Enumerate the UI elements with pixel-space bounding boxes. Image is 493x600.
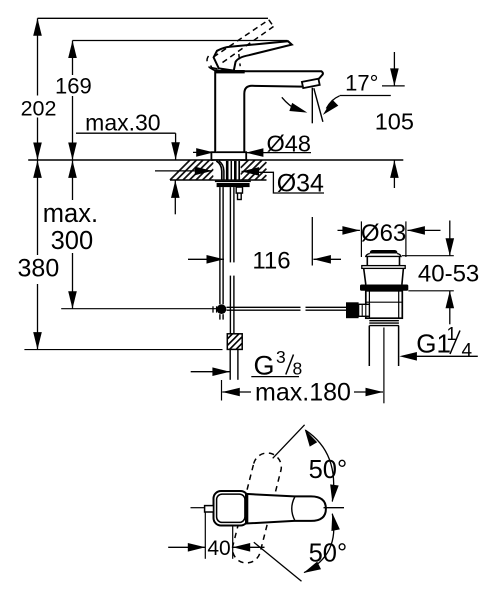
countertop hatching left of faucet	[170, 160, 213, 180]
svg-text:40-53: 40-53	[418, 261, 479, 288]
shank and flange lines	[216, 161, 239, 180]
bottom reference line 380	[24, 349, 222, 351]
svg-text:max.30: max.30	[85, 110, 160, 136]
17 degree construction: vertical leg	[311, 88, 313, 124]
top angle leg	[273, 425, 305, 459]
hose connector hatched	[227, 334, 242, 350]
locknut ribs	[369, 318, 399, 325]
dim max300 vertical line	[72, 160, 74, 308]
horizontal axis line right	[324, 507, 345, 509]
dim max.180	[221, 380, 223, 401]
grip inner	[217, 494, 245, 522]
countertop bottom line	[170, 179, 267, 181]
body	[366, 291, 403, 318]
pin at left	[205, 506, 214, 512]
waste centerline	[383, 328, 385, 404]
horizontal pop-up rod reference line (max.300)	[61, 308, 217, 310]
countertop hatching right of faucet	[241, 160, 267, 180]
handle raised dashed lever	[207, 20, 273, 70]
aerator	[302, 79, 320, 88]
pop-up rod vertical pair	[219, 187, 221, 304]
dim 116	[188, 258, 224, 260]
washer and mounting nut	[215, 180, 251, 182]
flange black band	[360, 285, 408, 291]
horizontal rod to waste	[227, 306, 301, 308]
svg-text:40: 40	[207, 537, 230, 560]
top 50 arc	[305, 430, 333, 501]
ledge	[362, 266, 405, 269]
svg-text:50°: 50°	[309, 456, 348, 484]
17 degree slanted leg	[314, 88, 323, 122]
taper section	[364, 268, 366, 284]
svg-text:4: 4	[462, 341, 473, 362]
dim 105	[382, 85, 405, 87]
label G 3/8 with leader	[191, 371, 230, 373]
svg-text:Ø34: Ø34	[277, 170, 324, 198]
faucet base plate	[211, 152, 246, 160]
label G1 1/4 with leader	[414, 355, 478, 357]
dim 40-53	[402, 255, 454, 257]
svg-text:17°: 17°	[345, 71, 378, 96]
knob knurled black	[346, 302, 359, 318]
cap rim	[366, 254, 401, 257]
dim 202 vertical line	[37, 18, 39, 160]
svg-text:380: 380	[18, 255, 60, 283]
svg-text:G: G	[254, 351, 275, 381]
knob collar	[359, 304, 370, 316]
shank white area	[213, 161, 240, 179]
grip right edge visible through blade	[247, 494, 249, 523]
svg-text:169: 169	[55, 74, 92, 99]
svg-text:8: 8	[293, 359, 303, 379]
dim 380 vertical line	[37, 160, 39, 349]
dim 169 vertical line	[72, 41, 74, 161]
countertop surface line	[28, 159, 403, 161]
dashed rotated handle capsule	[232, 453, 281, 563]
blade inner cap arc	[292, 497, 295, 521]
handle gap thick bar	[215, 70, 244, 73]
svg-text:116: 116	[252, 248, 290, 275]
solid handle top view: grip outer	[214, 491, 249, 526]
spout underside and column right wall	[244, 86, 302, 152]
bottom 50 arc	[304, 514, 334, 573]
svg-text:Ø48: Ø48	[267, 130, 311, 156]
bottom angle leg	[254, 542, 302, 581]
cap cylinder	[366, 256, 368, 265]
blade	[246, 494, 326, 524]
dim 40 bottom view	[204, 513, 206, 559]
cap black disc	[370, 250, 398, 256]
svg-text:105: 105	[375, 109, 414, 135]
top reference line 202	[38, 17, 269, 19]
handle solid lever	[214, 41, 292, 70]
right arc arrow	[326, 96, 339, 109]
svg-text:202: 202	[21, 96, 57, 120]
waste pipe walls	[368, 326, 370, 366]
pop-up rod guide steps	[236, 187, 242, 193]
ball joint	[217, 304, 227, 314]
hose thread tail	[229, 349, 231, 379]
svg-text:50°: 50°	[309, 540, 348, 568]
handle lower lip	[211, 66, 219, 71]
pivot axis line left of pin	[191, 507, 205, 509]
dim Ø34	[155, 170, 212, 172]
dim Ø48	[193, 151, 214, 153]
svg-text:3: 3	[276, 347, 286, 367]
svg-text:Ø63: Ø63	[361, 220, 406, 247]
reference line 169	[73, 40, 288, 42]
dim Ø63	[360, 221, 362, 257]
svg-text:300: 300	[51, 227, 94, 255]
faucet body outline	[215, 71, 323, 152]
svg-text:max.: max.	[43, 200, 98, 228]
left arc arrow	[282, 97, 298, 110]
rod stubs below ball	[219, 314, 221, 319]
supply hose pair	[229, 187, 231, 262]
svg-text:max.180: max.180	[255, 379, 351, 407]
ball bracket	[212, 306, 214, 312]
